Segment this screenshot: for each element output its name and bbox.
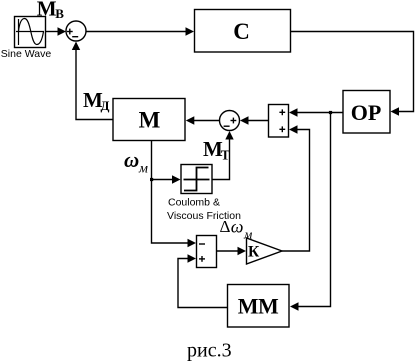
junction dot: [150, 178, 153, 181]
wire: [186, 116, 220, 124]
block OP: [343, 91, 390, 134]
wire: [291, 32, 414, 116]
label omega_m: [124, 148, 148, 177]
wire: [178, 254, 228, 307]
svg-text:К: К: [248, 244, 260, 261]
svg-text:С: С: [233, 19, 250, 44]
wire: [289, 108, 343, 116]
caption рис.3: [187, 340, 232, 362]
sum junction S1: [66, 21, 86, 41]
block M: [113, 99, 185, 141]
block MM: [228, 285, 290, 328]
wire: [282, 125, 310, 251]
label Sine Wave: [1, 48, 52, 60]
label МТ: [203, 137, 230, 163]
wire: [152, 180, 197, 248]
wire: [46, 27, 67, 35]
wire: [86, 27, 194, 35]
wire: [212, 131, 234, 180]
block Coulomb friction: [181, 165, 212, 194]
svg-text:ОР: ОР: [351, 100, 382, 125]
svg-text:Sine Wave: Sine Wave: [1, 48, 52, 60]
junction dot: [329, 111, 332, 114]
svg-text:ω: ω: [231, 217, 244, 237]
svg-text:М: М: [37, 0, 57, 21]
sum block S4: [197, 236, 217, 268]
svg-text:В: В: [55, 6, 64, 21]
wire: [72, 42, 113, 120]
svg-text:Δ: Δ: [220, 217, 231, 236]
wire: [152, 141, 181, 184]
label МВ: [37, 0, 65, 21]
svg-text:М: М: [139, 108, 161, 133]
label Coulomb & Viscous Friction: [167, 197, 241, 223]
sum block S2: [269, 105, 289, 138]
block C: [195, 10, 291, 53]
label delta omega_m: [220, 217, 253, 242]
svg-text:ММ: ММ: [238, 294, 279, 319]
block Sine Wave: [15, 17, 46, 48]
svg-text:рис.3: рис.3: [187, 340, 232, 362]
svg-text:м: м: [138, 162, 148, 177]
svg-text:Д: Д: [101, 98, 110, 113]
wire: [217, 247, 247, 255]
sum junction S3: [220, 111, 240, 131]
svg-text:Т: Т: [221, 148, 230, 163]
svg-text:ω: ω: [124, 148, 139, 172]
wire: [240, 116, 269, 124]
wire: [290, 113, 331, 311]
label МД: [83, 88, 110, 113]
svg-text:Coulomb &: Coulomb &: [168, 197, 220, 209]
gain K: [247, 238, 283, 264]
